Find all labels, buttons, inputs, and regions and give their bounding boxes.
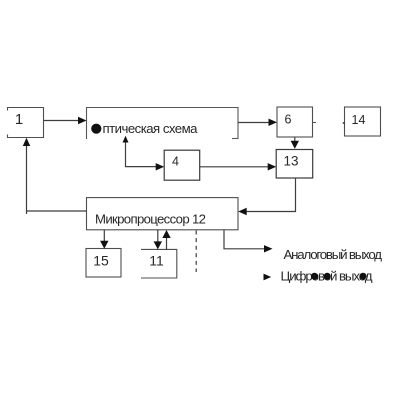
arrowhead analog output — [264, 245, 273, 252]
block 4 — [164, 150, 200, 180]
arrowhead into 13 top — [291, 141, 299, 149]
svg-text:Микропроцессор 12: Микропроцессор 12 — [95, 212, 206, 227]
block 11 — [141, 249, 177, 278]
arrowhead into optical scheme — [78, 117, 87, 124]
label Оптическая схема (O as blob) — [91, 124, 101, 134]
block 6 — [277, 107, 313, 137]
svg-text:птическая схема: птическая схема — [103, 121, 199, 136]
dashed line below microprocessor — [195, 231, 197, 273]
svg-text:15: 15 — [93, 253, 109, 269]
wire: 4 to 13 — [200, 166, 270, 168]
svg-text:13: 13 — [283, 154, 298, 169]
arrowhead up toward optical text — [123, 136, 129, 143]
arrowhead into 6 — [269, 119, 278, 126]
arrowhead into 1 bottom — [23, 138, 30, 146]
wire: 6 down to 13 — [294, 137, 296, 143]
wire: 1 to optical scheme — [44, 120, 80, 122]
wire: microprocessor to 1 (feedback) — [27, 144, 87, 211]
arrowhead into 13 left — [268, 163, 277, 170]
microprocessor box — [87, 198, 239, 230]
digital output legend arrowhead — [264, 274, 272, 281]
blobs over о letters — [311, 273, 318, 280]
wire: 11 up to microprocessor — [166, 237, 168, 250]
wire: microprocessor down to 15 — [103, 230, 105, 242]
arrowhead into microprocessor right — [238, 208, 247, 215]
stub on right of block 6 — [313, 122, 317, 124]
arrowhead into 4 — [156, 163, 165, 170]
tick at corner — [26, 211, 28, 214]
tick on left edge of block 14 — [343, 122, 345, 124]
svg-text:4: 4 — [172, 155, 179, 169]
svg-text:6: 6 — [285, 113, 292, 127]
wire: 13 down then left to microprocessor — [245, 178, 296, 212]
svg-text:11: 11 — [149, 253, 164, 269]
svg-text:Аналоговый выход: Аналоговый выход — [284, 247, 383, 262]
block 1 (box, broken left edge) — [8, 108, 44, 138]
block 14 — [345, 107, 381, 136]
wire: microprocessor to analog output — [224, 230, 266, 249]
arrowhead into 15 top — [100, 241, 108, 249]
block 15 — [86, 249, 121, 278]
wire: optical scheme to 6 — [238, 122, 271, 124]
optical scheme box (open bottom) — [87, 108, 239, 140]
arrowhead into 11 top — [154, 241, 162, 249]
wire: optical scheme down then to 4 — [126, 140, 158, 167]
svg-text:14: 14 — [352, 113, 366, 127]
svg-text:1: 1 — [15, 111, 23, 128]
block 13 — [276, 150, 313, 179]
arrowhead into microprocessor bottom — [162, 230, 170, 238]
wire: microprocessor down to 11 — [157, 230, 159, 243]
